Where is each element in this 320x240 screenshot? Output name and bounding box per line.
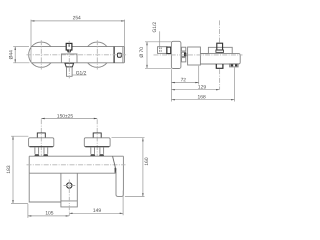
spout silhouette diagonal dark tip bbox=[115, 168, 117, 173]
connection nut bbox=[167, 47, 171, 54]
G1/2 wall leader bbox=[159, 31, 161, 46]
diverter knob front bbox=[66, 43, 72, 50]
svg-text:183: 183 bbox=[6, 165, 12, 173]
handle stem piece bottom bbox=[182, 58, 186, 62]
dimension D70 top extension bbox=[145, 41, 171, 43]
dimension D70 bottom extension bbox=[145, 67, 171, 69]
right handle bold bottom edge bbox=[85, 146, 109, 148]
handshower outlet thread marks bbox=[231, 64, 238, 66]
svg-text:149: 149 bbox=[93, 208, 101, 214]
G1/2 outlet label underline bbox=[72, 74, 86, 76]
dimension 72 line bbox=[171, 82, 198, 84]
right handle plan bbox=[84, 138, 110, 147]
bar cross-section block bbox=[188, 47, 201, 65]
left handle bold bottom edge bbox=[30, 146, 53, 148]
left knob top square bbox=[37, 133, 45, 138]
bath outlet below spout bbox=[216, 64, 223, 68]
dimension 129 line bbox=[171, 89, 219, 91]
handle stem dark detail bbox=[184, 53, 186, 57]
spout silhouette left edge bbox=[116, 172, 123, 197]
diverter fitting side bbox=[217, 43, 223, 50]
dimension 160 bottom extension bbox=[125, 196, 145, 198]
diverter knob neck bbox=[67, 50, 71, 52]
dimension D44 line bbox=[14, 47, 16, 63]
svg-text:Ø44: Ø44 bbox=[9, 50, 15, 60]
right stem feet bbox=[90, 154, 104, 156]
svg-text:G1/2: G1/2 bbox=[76, 70, 87, 76]
bar body bottom edge bbox=[31, 62, 124, 64]
neck to body bbox=[200, 53, 208, 55]
diverter knob indicator tick bbox=[68, 44, 70, 47]
stem connector lines bbox=[186, 54, 188, 56]
lower rect bottom through tube bbox=[61, 200, 77, 202]
spout body bbox=[200, 54, 240, 64]
svg-text:150±25: 150±25 bbox=[57, 114, 74, 120]
dimension 254 left extension bbox=[30, 20, 32, 63]
dimension 168 right extension bbox=[234, 67, 236, 101]
dimension 72 right extension bbox=[198, 66, 200, 85]
upper housing bbox=[208, 47, 232, 53]
outlet circle bbox=[67, 183, 72, 188]
dimension 254 right extension bbox=[124, 20, 126, 47]
right knob rosette circle (clipped by bar) bbox=[88, 42, 107, 67]
handle stem piece top bbox=[182, 47, 186, 51]
riser centerline bbox=[219, 20, 221, 43]
rosette disc side bbox=[171, 41, 181, 68]
left knob rosette circle (clipped by bar) bbox=[29, 42, 51, 67]
dimension D44 top extension bbox=[13, 46, 29, 48]
common left extension bbox=[170, 69, 172, 101]
handshower holder square bbox=[118, 53, 122, 57]
svg-text:G1/2: G1/2 bbox=[152, 22, 158, 33]
side centerline horizontal bbox=[154, 54, 243, 56]
dimension 149 line bbox=[69, 212, 123, 214]
bath outlet centerline bbox=[219, 69, 221, 89]
handshower outlet bbox=[230, 64, 239, 67]
outlet crosshair horizontal bbox=[64, 185, 76, 187]
front centerline horizontal bbox=[27, 54, 128, 56]
bar right end lines bbox=[123, 47, 125, 63]
lower-left body rect bbox=[29, 173, 61, 202]
dimension D70 line bbox=[146, 42, 148, 69]
svg-text:168: 168 bbox=[198, 94, 206, 100]
dimension 168 line bbox=[171, 99, 234, 101]
svg-text:72: 72 bbox=[181, 77, 187, 83]
left stem lines bbox=[35, 147, 48, 154]
outlet collar bbox=[65, 63, 74, 67]
dimension 105 left extension bbox=[27, 204, 29, 218]
plan bar outline bbox=[29, 156, 123, 195]
spout silhouette diagonal bbox=[113, 156, 116, 168]
diverter centerline vertical bbox=[68, 41, 70, 43]
left knob plan centerline bbox=[40, 119, 42, 156]
left knob centerline vertical bbox=[40, 40, 42, 69]
left handle plan bbox=[29, 138, 54, 147]
wall stub thread dashes bbox=[160, 48, 162, 53]
dimension 160 line bbox=[142, 138, 144, 197]
right knob centerline vertical bbox=[96, 40, 98, 69]
outlet tube bbox=[67, 67, 73, 76]
svg-text:Ø 70: Ø 70 bbox=[139, 47, 145, 58]
svg-text:254: 254 bbox=[73, 15, 81, 21]
dimension 183 top extension bbox=[11, 135, 28, 137]
outlet crosshair vertical and extension bbox=[68, 180, 70, 216]
dimension 254 line bbox=[31, 20, 125, 22]
svg-text:160: 160 bbox=[144, 157, 150, 165]
dimension 160 top extension bbox=[112, 137, 145, 139]
plan centerline bbox=[27, 164, 126, 166]
outlet housing tube bbox=[61, 173, 77, 207]
svg-text:129: 129 bbox=[198, 84, 206, 90]
diverter fitting collar bbox=[216, 50, 224, 52]
left stem feet bbox=[34, 154, 48, 156]
outlet tube centerline bbox=[68, 50, 70, 79]
wall stub bbox=[158, 47, 167, 54]
dimension 150+-25 line bbox=[41, 118, 97, 120]
right stem lines bbox=[91, 147, 104, 154]
bar right end cap separator (bold) bbox=[113, 47, 115, 63]
dimension 183 bottom extension bbox=[11, 202, 28, 204]
center housing block bbox=[61, 54, 77, 63]
right knob top square bbox=[93, 133, 101, 138]
dimension D44 bottom extension bbox=[13, 62, 29, 64]
right knob plan centerline bbox=[96, 119, 98, 156]
bar body top edge bbox=[31, 46, 124, 48]
svg-text:105: 105 bbox=[45, 210, 53, 216]
dimension 105 line bbox=[28, 215, 69, 217]
dimension 149 right extension bbox=[122, 191, 124, 216]
handle stem piece middle bbox=[182, 52, 186, 56]
dimension 183 line bbox=[12, 136, 14, 203]
